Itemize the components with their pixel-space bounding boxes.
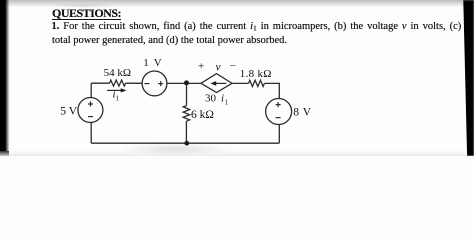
right black border bar [458, 0, 474, 156]
wire 8V source down to bottom right corner [278, 125, 280, 144]
minus sign inside 5V source [88, 116, 93, 118]
wire 54k to 1V source [126, 82, 142, 84]
problem text line 2 [52, 35, 287, 46]
wire left vertical top (corner down to 5V source) [90, 83, 92, 97]
svg-text:8 V: 8 V [293, 107, 312, 119]
plus sign inside 1V source [158, 81, 163, 86]
svg-text:6 kΩ: 6 kΩ [191, 109, 214, 121]
wire 6k resistor to bottom node B [185, 121, 187, 143]
bottom faint shade [0, 150, 474, 156]
arrow inside diamond line [216, 82, 227, 84]
current arrow i1 line [107, 89, 121, 91]
svg-text:1 V: 1 V [143, 57, 163, 69]
svg-text:1.8 kΩ: 1.8 kΩ [240, 68, 272, 80]
svg-text:−: − [230, 60, 236, 72]
heading QUESTIONS: [52, 6, 121, 21]
svg-text:v: v [216, 62, 222, 74]
node A junction dot [184, 80, 189, 85]
minus sign inside 8V source [276, 117, 281, 119]
wire 5V source down to bottom left corner [90, 123, 92, 144]
voltage source V3 8V circle [266, 99, 292, 125]
minus sign inside 1V source [145, 83, 150, 85]
faint smudge above bottom wire [118, 143, 233, 155]
voltage source V2 1V circle [142, 71, 167, 96]
resistor R 1.8 kOhm zigzag [249, 80, 265, 86]
svg-text:54 kΩ: 54 kΩ [104, 67, 131, 79]
resistor R 54 kOhm zigzag [110, 80, 126, 86]
plus sign inside 5V source [88, 102, 93, 107]
dependent source U1 diamond 30i1 [201, 74, 232, 93]
node B junction dot bottom [184, 141, 189, 146]
wire diamond to 1.8k resistor [232, 82, 249, 84]
voltage source V1 5V circle [78, 98, 103, 123]
faint smudge top [45, 3, 120, 8]
plus sign inside 8V source [276, 102, 281, 107]
wire node A down to 6k resistor [186, 84, 188, 106]
wire top-left horizontal (left corner to 54k resistor) [91, 82, 109, 84]
svg-text:30 i1: 30 i1 [205, 93, 229, 107]
top photo gray band [0, 0, 474, 7]
svg-text:+: + [198, 61, 204, 73]
problem text line 1 [52, 21, 474, 33]
wire 1V source to node A [167, 82, 201, 84]
current arrow i1 head [121, 88, 127, 92]
wire 1.8k to right corner and down to 8V source [264, 83, 279, 98]
resistor R 6 kOhm vertical zigzag [183, 106, 189, 122]
svg-text:5 V: 5 V [60, 106, 77, 118]
wire bottom horizontal [91, 142, 279, 144]
arrow inside diamond head [210, 81, 216, 86]
left black border bar [0, 0, 10, 151]
